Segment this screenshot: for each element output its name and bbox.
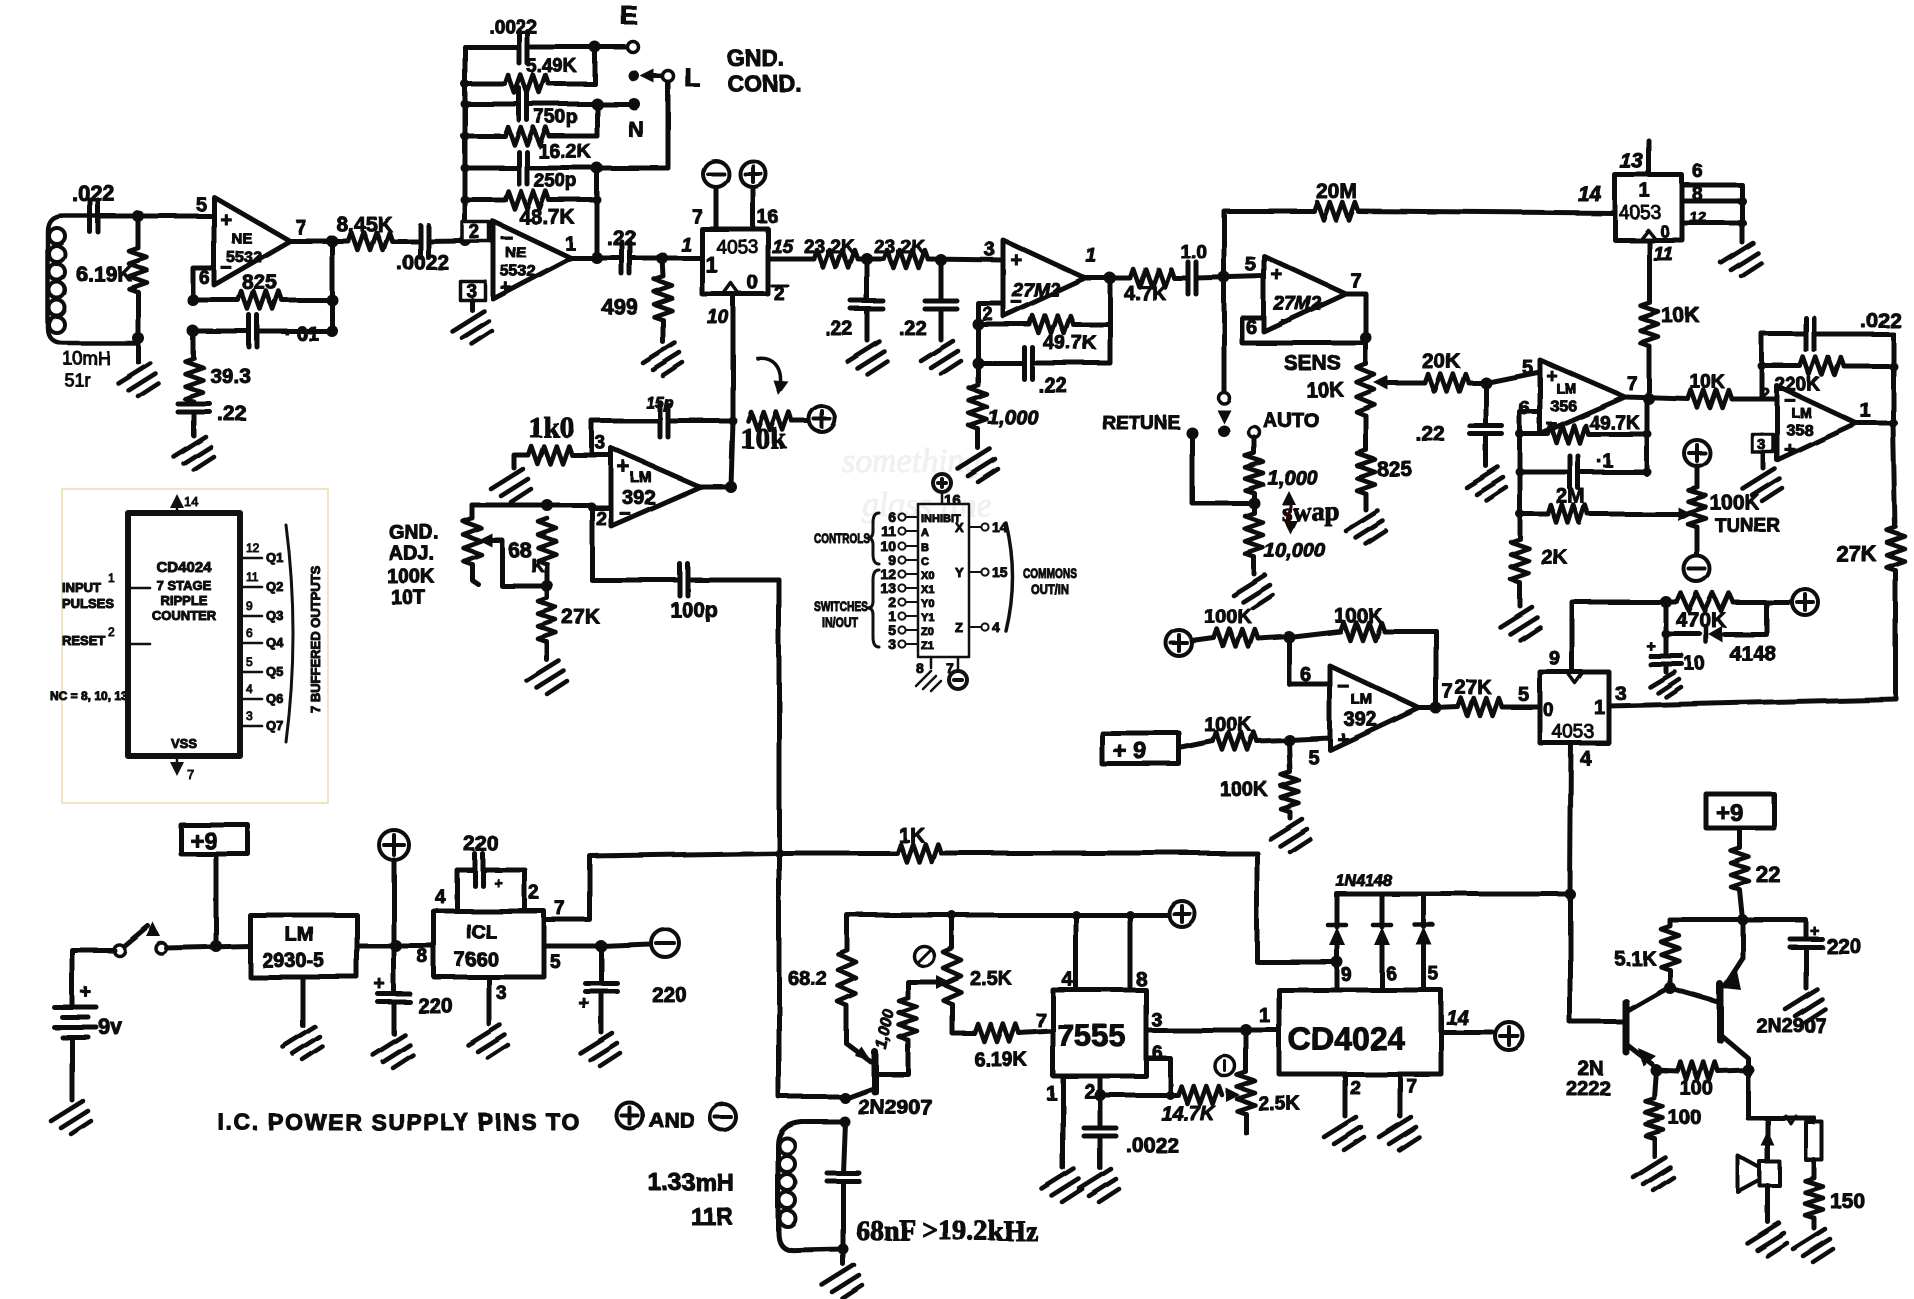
capacitor .01 feedback <box>193 329 249 334</box>
output node <box>1419 706 1436 711</box>
circled plus input <box>1166 630 1192 656</box>
resistor 16.2K <box>465 134 505 139</box>
ground 1k0 <box>491 469 531 502</box>
svg-text:GND.: GND. <box>727 45 785 71</box>
wire to pin5 <box>1289 738 1330 740</box>
trimmer 1,000 base <box>877 1040 908 1074</box>
svg-text:CD4024: CD4024 <box>1288 1021 1406 1057</box>
switch arrow <box>1217 410 1231 424</box>
feedback wire pin6 <box>1520 412 1540 514</box>
svg-text:2: 2 <box>1350 1078 1361 1099</box>
capacitor 220 b <box>599 946 604 983</box>
op-amp U3 27M2 pin3 pin2 pin1 <box>1003 240 1085 316</box>
potentiometer 2.5K <box>950 915 955 948</box>
wire 470K left to 4053C pin9 <box>1572 602 1666 672</box>
svg-text:48.7K: 48.7K <box>519 206 575 229</box>
resistor 6.19K <box>975 1024 1019 1042</box>
svg-text:CONTROLS: CONTROLS <box>814 530 870 546</box>
svg-text:· 01: · 01 <box>284 323 318 345</box>
capacitor .022 <box>90 200 98 232</box>
svg-text:1,000: 1,000 <box>1267 467 1317 489</box>
svg-text:7: 7 <box>187 767 194 782</box>
svg-text:4: 4 <box>1580 748 1592 770</box>
op-amp U5 LM356 pin5 pin6 pin7 <box>1540 360 1625 434</box>
svg-text:1: 1 <box>705 252 717 277</box>
svg-text:.22: .22 <box>218 403 247 426</box>
resistor 23.2K second <box>884 250 928 268</box>
wire to 4053C pin3 <box>1609 699 1896 706</box>
svg-text:NC = 8, 10, 13: NC = 8, 10, 13 <box>50 689 128 703</box>
svg-text:100K: 100K <box>1220 779 1268 801</box>
svg-text:2N: 2N <box>1578 1058 1604 1080</box>
svg-text:8: 8 <box>916 660 924 676</box>
brace switches <box>868 570 879 647</box>
capacitor .22 output <box>571 256 622 261</box>
capacitor 220 a <box>392 946 397 994</box>
speaker SP1 <box>1766 1118 1771 1162</box>
svg-text:3: 3 <box>246 709 253 723</box>
feedback 220K <box>1762 334 1777 399</box>
svg-text:16.2K: 16.2K <box>538 141 592 163</box>
CD4024 pin7 arrow <box>176 756 179 772</box>
svg-text:2N2907: 2N2907 <box>858 1096 932 1119</box>
brace controls <box>868 513 879 564</box>
svg-text:9: 9 <box>246 599 253 613</box>
circled minus supply <box>703 161 729 187</box>
svg-text:L: L <box>684 62 700 92</box>
right rail rows E-F down to output <box>595 168 600 258</box>
feedback right vertical <box>1108 278 1113 363</box>
wire to cap <box>392 239 420 244</box>
svg-text:100K: 100K <box>1334 605 1382 627</box>
resistor 825 feedback <box>193 298 238 303</box>
supply rail top <box>847 915 1168 950</box>
feedback right vertical <box>1434 631 1439 708</box>
svg-text:−: − <box>1337 675 1349 698</box>
resistor 10,000 <box>1245 513 1263 557</box>
svg-text:.22: .22 <box>1038 374 1067 397</box>
feedback right vertical <box>1645 399 1650 472</box>
svg-text:.0022: .0022 <box>396 251 449 274</box>
svg-text:4053: 4053 <box>1552 722 1594 743</box>
node 20K right <box>1469 381 1486 386</box>
capacitor .22 shunt2 <box>939 260 944 301</box>
wire node to opamp pin5 <box>98 214 214 219</box>
brace outputs <box>286 525 293 742</box>
svg-text:.0022: .0022 <box>489 17 537 38</box>
ground pin3 <box>470 300 475 310</box>
transistor Q2 2N2222 <box>1623 1002 1630 1052</box>
capacitor .0022 row E <box>465 45 519 50</box>
svg-text:499: 499 <box>601 294 638 319</box>
circled plus rail <box>1169 901 1195 927</box>
svg-text:6.19K: 6.19K <box>76 263 132 286</box>
resistor 1k0 <box>514 455 528 468</box>
resistor 27K from LM392 <box>1436 707 1458 708</box>
svg-text:10: 10 <box>707 307 729 328</box>
pin6 wire <box>1146 1058 1170 1095</box>
svg-text:X0: X0 <box>921 570 934 582</box>
resistor 499 to ground <box>662 258 663 276</box>
auto contact circle <box>1249 427 1260 438</box>
svg-text:20M: 20M <box>1316 180 1357 203</box>
svg-text:5532: 5532 <box>226 249 262 266</box>
wire +9 to node <box>214 854 219 946</box>
svg-text:15p: 15p <box>646 395 674 412</box>
svg-text:220: 220 <box>418 995 453 1018</box>
svg-text:Y1: Y1 <box>921 612 934 624</box>
svg-text:27K: 27K <box>1836 541 1876 566</box>
terminal L with plug arrow <box>629 71 640 82</box>
svg-text:7: 7 <box>692 207 703 228</box>
svg-text:+: + <box>578 993 589 1014</box>
svg-text:4: 4 <box>246 682 253 696</box>
svg-text:LM: LM <box>285 924 314 946</box>
circled minus inline <box>710 1104 736 1130</box>
wire pin2 feedback <box>978 303 1003 363</box>
wire node to pin6 <box>1289 637 1330 684</box>
diode D3 4148 <box>1380 894 1385 927</box>
wire switch to battery <box>72 950 114 1005</box>
pin4 wire down <box>1570 743 1571 892</box>
circled plus main <box>379 830 409 860</box>
op-amp U8 LM392 pin3 pin2 pin1 <box>611 448 700 526</box>
svg-text:Y0: Y0 <box>921 598 934 610</box>
pin14 wire to plus <box>1441 1030 1492 1035</box>
svg-text:Q6: Q6 <box>266 691 283 706</box>
wire regulator out <box>357 944 434 949</box>
svg-text:1k0: 1k0 <box>528 411 575 444</box>
wire output node <box>290 239 348 244</box>
svg-text:AUTO: AUTO <box>1263 410 1319 432</box>
svg-text:Z: Z <box>955 620 963 635</box>
svg-text:I.C. POWER SUPPLY PINS TO: I.C. POWER SUPPLY PINS TO <box>218 1109 581 1135</box>
svg-text:N: N <box>628 117 644 142</box>
svg-text:10K: 10K <box>1306 379 1345 402</box>
capacitor 15p <box>592 419 660 424</box>
diode D1 4148 <box>1666 602 1700 634</box>
capacitor 750p row <box>465 102 519 107</box>
svg-text:+: + <box>1337 728 1349 751</box>
svg-text:100: 100 <box>1680 1078 1713 1100</box>
inductor 1.33mH 11R <box>840 1117 851 1128</box>
svg-text:C: C <box>921 556 929 568</box>
svg-text:LM: LM <box>1556 380 1576 396</box>
svg-text:E: E <box>620 0 637 30</box>
svg-text:68.2: 68.2 <box>788 968 827 990</box>
svg-text:IN/OUT: IN/OUT <box>822 614 858 630</box>
svg-text:ICL: ICL <box>466 922 497 943</box>
svg-text:5: 5 <box>1428 964 1439 985</box>
circled minus supply <box>651 929 679 957</box>
capacitor .0022 timing <box>1084 1128 1116 1136</box>
svg-text:6: 6 <box>1692 161 1703 182</box>
wire battery to ground <box>70 1037 75 1100</box>
svg-text:1N4148: 1N4148 <box>1336 873 1392 890</box>
svg-text:2.5K: 2.5K <box>970 968 1013 990</box>
svg-text:Q3: Q3 <box>266 608 283 623</box>
svg-text:COUNTER: COUNTER <box>152 608 217 623</box>
resistor 23.2K first <box>814 250 858 268</box>
svg-text:220K: 220K <box>1775 375 1821 396</box>
svg-text:5: 5 <box>550 952 561 973</box>
svg-text:100K: 100K <box>1204 714 1252 736</box>
svg-text:Q1: Q1 <box>266 550 283 565</box>
svg-text:27K: 27K <box>1455 677 1492 699</box>
svg-text:SENS: SENS <box>1284 352 1341 375</box>
svg-text:.022: .022 <box>72 181 115 206</box>
svg-text:220: 220 <box>464 833 499 856</box>
output node <box>1085 276 1130 281</box>
svg-text:INPUT: INPUT <box>62 580 101 595</box>
svg-text:A: A <box>921 527 929 539</box>
resistor 20K wiper <box>1425 374 1469 392</box>
svg-text:+: + <box>1271 264 1283 286</box>
circled plus supply <box>740 161 766 187</box>
resistor 22 <box>1738 828 1743 848</box>
svg-text:49.7K: 49.7K <box>1043 332 1097 354</box>
CD4024 pin 9 Q3 <box>240 615 262 618</box>
svg-text:10K: 10K <box>1661 304 1700 327</box>
capacitor 220 output <box>1743 920 1806 939</box>
svg-text:750p: 750p <box>534 107 577 128</box>
svg-text:+9: +9 <box>190 828 217 855</box>
pin3 wire to CD4024 <box>1146 1028 1279 1033</box>
svg-text:10K: 10K <box>1690 372 1725 393</box>
svg-text:1K: 1K <box>898 824 925 847</box>
svg-text:358: 358 <box>1786 422 1813 439</box>
resistor 100K b feedback <box>1289 631 1340 637</box>
output wire down right edge <box>1856 423 1895 527</box>
svg-text:23.2K: 23.2K <box>804 237 855 258</box>
resistor 49.7K feedback <box>978 322 1029 327</box>
svg-text:TUNER: TUNER <box>1715 516 1781 537</box>
svg-text:−: − <box>619 503 631 525</box>
svg-text:14.7K: 14.7K <box>1161 1103 1216 1125</box>
wire coil bottom <box>136 343 141 362</box>
resistor 10K horizontal <box>1688 390 1732 408</box>
svg-text:10T: 10T <box>391 587 425 609</box>
svg-text:1: 1 <box>1639 180 1650 202</box>
svg-text:5: 5 <box>196 195 207 216</box>
svg-text:8: 8 <box>417 946 428 968</box>
svg-text:68: 68 <box>508 539 532 562</box>
capacitor 220 top <box>457 870 475 911</box>
resistor 10K vertical <box>1640 302 1658 346</box>
pin2 ground <box>1343 1074 1348 1116</box>
resistor 100K d to ground <box>1289 740 1290 772</box>
svg-text:.0022: .0022 <box>1126 1134 1179 1157</box>
svg-text:CD4024: CD4024 <box>156 559 212 576</box>
svg-text:something: something <box>842 443 982 480</box>
brace commons <box>1006 523 1013 631</box>
svg-text:1: 1 <box>565 234 576 255</box>
svg-text:6: 6 <box>1386 964 1397 985</box>
svg-text:6: 6 <box>199 268 210 289</box>
pin 11 wire down <box>1647 240 1652 302</box>
fuse 150 body <box>1806 1122 1822 1160</box>
svg-text:22: 22 <box>1756 862 1780 887</box>
pin4 wire <box>1074 915 1079 990</box>
svg-text:7: 7 <box>1442 681 1453 703</box>
resistor 2K <box>1518 514 1523 539</box>
pin7 wire to 1K rail <box>544 853 779 920</box>
wire retune down <box>1192 433 1254 503</box>
CD4024 pin 6 Q4 <box>240 642 262 645</box>
output node wire <box>700 485 731 490</box>
svg-text:4148: 4148 <box>1729 642 1776 665</box>
pin1 ground <box>1061 1076 1066 1168</box>
switch pole open circle <box>1222 277 1227 392</box>
svg-text:Q4: Q4 <box>266 635 284 650</box>
svg-text:51r: 51r <box>64 370 90 390</box>
svg-text:LM: LM <box>1791 404 1811 420</box>
svg-text:16: 16 <box>757 207 778 228</box>
CD4024 pin14 arrow <box>176 497 179 513</box>
right rail rows A-B <box>593 47 598 84</box>
svg-text:100K: 100K <box>1204 606 1252 628</box>
resistor 100 vertical <box>1654 1070 1656 1098</box>
wire to cap 1.0 <box>1174 276 1188 281</box>
resistor 100K a <box>1192 638 1214 641</box>
svg-text:.22: .22 <box>1416 423 1445 446</box>
svg-text:8: 8 <box>1136 969 1147 991</box>
svg-text:2M: 2M <box>1556 485 1585 508</box>
svg-text:8.45K: 8.45K <box>336 213 392 236</box>
inductor L1 10mH 51r <box>48 216 138 343</box>
svg-text:7: 7 <box>1406 1076 1417 1097</box>
capacitor 68nF <box>843 1122 845 1173</box>
svg-text:23.2K: 23.2K <box>874 237 925 258</box>
resistor 68.2 <box>838 950 856 1006</box>
svg-text:7660: 7660 <box>454 949 499 971</box>
svg-text:2222: 2222 <box>1566 1078 1611 1100</box>
battery 9v <box>54 1007 96 1037</box>
svg-text:COMMONS: COMMONS <box>1023 565 1077 581</box>
wire node up to 20M <box>1224 211 1314 277</box>
svg-text:+: + <box>494 875 503 892</box>
svg-text:4.7K: 4.7K <box>1124 283 1167 305</box>
svg-text:2K: 2K <box>1541 546 1568 569</box>
svg-text:2: 2 <box>469 222 480 243</box>
wire 100p down to 1K rail <box>777 580 782 853</box>
capacitor 1.0 <box>1188 262 1196 294</box>
svg-text:7: 7 <box>1036 1011 1047 1032</box>
svg-text:+9: +9 <box>1716 800 1743 827</box>
resistor 20M <box>1314 202 1358 220</box>
ground battery <box>51 1101 91 1134</box>
switch SW1 <box>114 945 125 956</box>
wire switch to regulator <box>166 946 250 948</box>
wire pin6 to feedback <box>193 268 214 300</box>
svg-text:+: + <box>1784 439 1796 461</box>
svg-text:AND: AND <box>649 1109 695 1132</box>
svg-text:LM: LM <box>1351 691 1373 708</box>
svg-text:2: 2 <box>1084 1081 1095 1103</box>
svg-text:+: + <box>617 454 630 479</box>
svg-text:6: 6 <box>246 626 253 640</box>
resistor 4.7K <box>1130 269 1174 287</box>
pin3 ground <box>487 977 492 1024</box>
IC 7555 timer <box>1053 990 1146 1076</box>
svg-text:4053: 4053 <box>716 237 758 258</box>
svg-text:glass line: glass line <box>862 487 991 524</box>
svg-text:1: 1 <box>1086 246 1097 267</box>
right rail rows C-D <box>595 104 600 136</box>
4053 pinout supply plus <box>933 474 951 492</box>
svg-text:7 STAGE: 7 STAGE <box>157 578 212 593</box>
IC 4053 switch B <box>1615 175 1682 240</box>
svg-text:11: 11 <box>1653 244 1673 265</box>
svg-text:2: 2 <box>108 625 115 639</box>
svg-text:11: 11 <box>246 570 259 584</box>
capacitor .022 feedback <box>1762 332 1806 337</box>
svg-text:3: 3 <box>595 433 606 454</box>
resistor 100 horizontal <box>1656 1070 1678 1071</box>
svg-text:7 BUFFERED OUTPUTS: 7 BUFFERED OUTPUTS <box>308 565 323 713</box>
svg-text:220: 220 <box>652 984 687 1007</box>
feedback loop wire <box>1242 294 1366 343</box>
node pin10 junction <box>729 417 738 426</box>
pin 10 wire down <box>731 294 736 421</box>
svg-text:9: 9 <box>1549 648 1560 670</box>
op-amp U1 NE5532 pin5 pin6 pin7 <box>214 197 290 285</box>
svg-text:11R: 11R <box>690 1203 733 1230</box>
svg-text:Y: Y <box>955 565 964 580</box>
svg-text:12: 12 <box>1690 209 1707 226</box>
box +9 supply output <box>1706 794 1774 828</box>
svg-text:5.1K: 5.1K <box>1614 948 1657 970</box>
diode D4 4148 <box>1422 894 1427 927</box>
diode D2 4148 <box>1335 894 1340 927</box>
wire output down to SENS pot <box>1364 338 1369 364</box>
svg-text:6: 6 <box>1300 664 1311 686</box>
pin 15 output wire <box>768 257 814 262</box>
pin2 row wire <box>592 508 611 580</box>
svg-text:15: 15 <box>772 237 794 258</box>
ground rail right <box>1740 185 1745 242</box>
svg-text:13: 13 <box>1620 150 1644 173</box>
op-amp U7 LM392 pin6 pin5 pin7 <box>1330 666 1419 750</box>
svg-text:Q7: Q7 <box>266 718 283 733</box>
svg-text:7: 7 <box>1350 270 1361 292</box>
ground <box>1721 243 1761 276</box>
svg-text:·1: ·1 <box>1596 451 1613 472</box>
feedback right vertical 220K <box>1891 334 1896 423</box>
CD4024 pinout outer frame <box>62 489 328 803</box>
ground coil <box>841 1249 846 1264</box>
svg-text:1: 1 <box>1594 697 1605 719</box>
svg-text:K: K <box>531 556 545 577</box>
annotation curved arrow <box>757 358 780 382</box>
ground pin3 <box>1761 452 1766 468</box>
svg-text:2N2907: 2N2907 <box>1756 1015 1826 1037</box>
circled plus inline <box>617 1103 643 1129</box>
wire to NE5532#2 pin2 <box>428 240 493 241</box>
svg-text:X1: X1 <box>921 584 934 596</box>
op-amp U6 LM358 pin2 pin3 pin1 <box>1777 386 1856 460</box>
CD4024 pin 11 Q2 <box>240 586 262 589</box>
svg-text:9: 9 <box>1341 965 1352 986</box>
svg-text:10,000: 10,000 <box>1264 540 1325 562</box>
switch contact dot <box>1218 425 1230 437</box>
svg-text:27M2: 27M2 <box>1011 280 1060 301</box>
svg-text:RESET: RESET <box>62 633 105 648</box>
node <box>928 259 1003 260</box>
svg-text:14: 14 <box>1578 183 1602 206</box>
svg-text:68nF >19.2kHz: 68nF >19.2kHz <box>856 1216 1037 1247</box>
capacitor 100p <box>592 578 680 583</box>
